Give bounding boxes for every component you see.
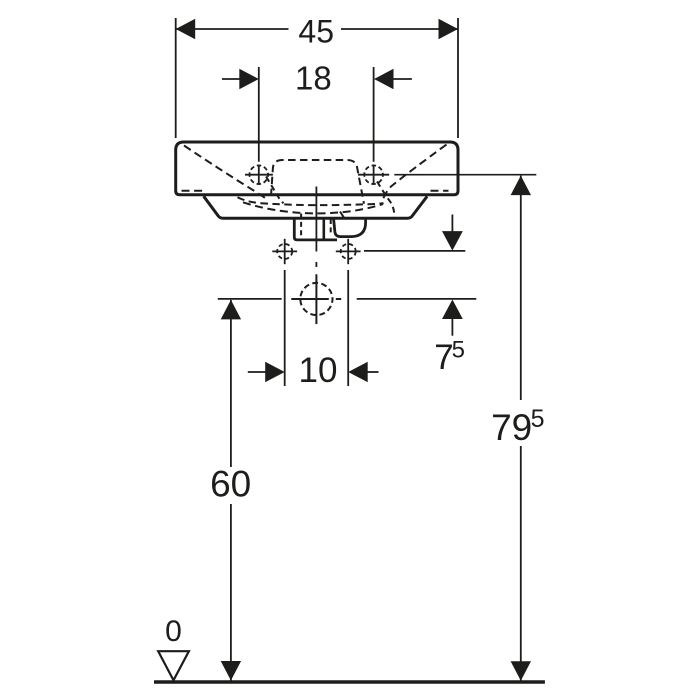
dim 60 line [230,300,232,467]
dim 45 arrowheads [176,19,196,39]
drain recess [294,219,337,240]
dim 45 line [176,28,458,30]
svg-text:60: 60 [210,463,251,504]
svg-text:79: 79 [491,407,532,448]
svg-text:45: 45 [298,13,334,49]
fixing hole left [277,244,292,259]
dim 7.5 down arrow [451,215,453,233]
floor line [154,680,545,683]
drain recess divider [322,219,325,239]
hidden trap edge dashes [340,212,345,219]
extension line 10 right [347,270,349,386]
trap cover [334,219,366,237]
svg-text:5: 5 [452,337,465,364]
drain hole crosshair [291,298,329,300]
drain level reference line left [218,298,282,300]
dim 79.5 arrowheads [511,176,531,196]
datum zero triangle [158,651,189,680]
dim 45 extension line left [175,18,177,138]
dim 45 extension line right [457,18,459,138]
basin rim outline [176,142,458,195]
bowl bottom arc (dashed) [243,202,383,213]
dim 10 right arrow [367,371,379,373]
hidden shelf dashes left [182,190,204,192]
tap hole right: dashed circle [364,165,383,184]
hidden shelf dashes right [431,190,449,192]
left channel dashes [266,177,284,204]
dim 60 arrowheads [221,300,241,320]
tap hole right crosshair [358,174,389,176]
tap hole left: dashed circle [249,165,268,184]
bowl outline right diagonal (dashed) [382,145,447,203]
right channel dashes from tap to trap [377,182,394,217]
svg-text:18: 18 [295,60,332,97]
bowl outline left diagonal (dashed) [184,146,268,200]
svg-text:5: 5 [531,405,545,433]
tap hole left crosshair [245,174,273,176]
bowl centerline [315,187,317,252]
inner bowl dashed outline [271,160,364,204]
dim 45 text [289,16,342,44]
fixing hole right [341,244,356,259]
basin apron [204,196,428,218]
bowl shelf front edge (dashed) [238,197,384,205]
drain level reference line right [357,298,477,300]
extension line 10 left [284,270,286,386]
fixing hole reference line [364,250,465,252]
dim 79.5 line [520,176,522,400]
svg-text:0: 0 [165,615,182,648]
dim 7.5 up arrow [451,318,453,336]
drain hole dashed circle [300,283,332,315]
hidden drain pipe dashed edges [300,214,302,240]
dim 10 left arrow [248,371,266,373]
svg-text:10: 10 [299,351,338,390]
dim 18 right arrow [390,78,412,80]
dim 18 left arrow [222,78,243,80]
tap hole reference line to 79.5 dim [394,174,536,176]
